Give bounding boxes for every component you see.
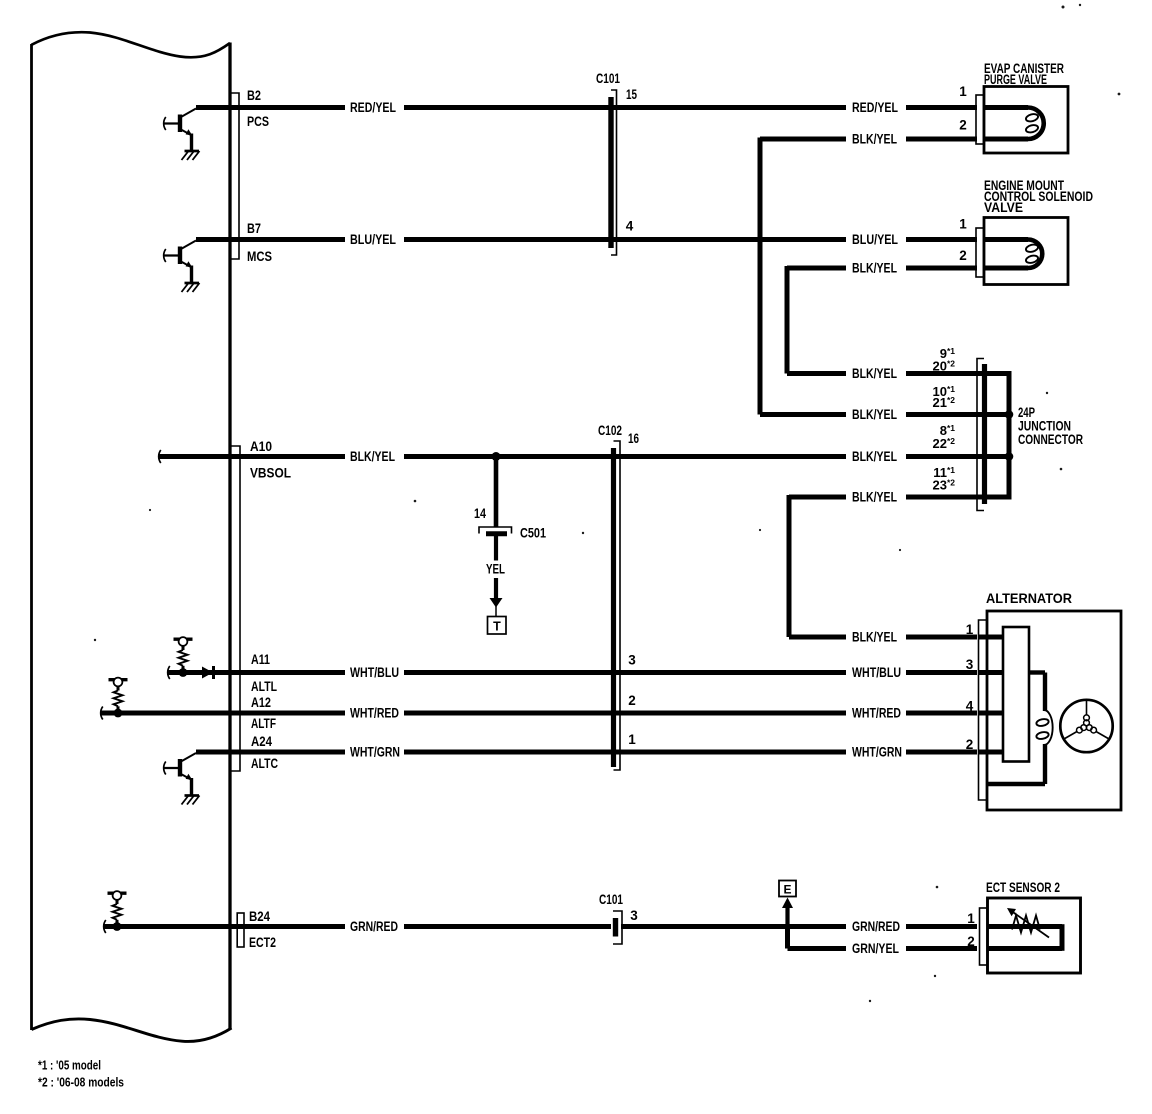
svg-text:2: 2: [966, 737, 974, 752]
svg-text:BLU/YEL: BLU/YEL: [852, 232, 898, 247]
svg-text:A11: A11: [251, 652, 270, 667]
svg-text:ALTF: ALTF: [251, 716, 276, 731]
svg-text:C101: C101: [596, 71, 620, 86]
svg-text:2: 2: [959, 248, 967, 263]
svg-text:GRN/RED: GRN/RED: [852, 919, 900, 934]
svg-text:BLU/YEL: BLU/YEL: [350, 232, 396, 247]
svg-text:16: 16: [628, 431, 639, 446]
svg-text:PCS: PCS: [247, 114, 269, 129]
svg-text:WHT/RED: WHT/RED: [852, 706, 901, 721]
svg-text:BLK/YEL: BLK/YEL: [852, 630, 897, 645]
svg-text:PURGE VALVE: PURGE VALVE: [984, 72, 1047, 87]
svg-text:E: E: [783, 883, 791, 897]
svg-text:2: 2: [628, 693, 636, 708]
svg-text:BLK/YEL: BLK/YEL: [852, 449, 897, 464]
svg-text:1: 1: [959, 84, 967, 99]
svg-text:14: 14: [474, 506, 486, 521]
svg-text:3: 3: [630, 908, 638, 923]
svg-text:WHT/BLU: WHT/BLU: [350, 665, 399, 680]
svg-text:WHT/GRN: WHT/GRN: [350, 745, 400, 760]
svg-text:MCS: MCS: [247, 249, 272, 264]
svg-text:BLK/YEL: BLK/YEL: [852, 132, 897, 147]
svg-text:1: 1: [966, 622, 974, 637]
svg-text:*2 : '06-08 models: *2 : '06-08 models: [38, 1076, 124, 1090]
svg-text:A10: A10: [250, 439, 272, 454]
svg-text:B24: B24: [249, 909, 270, 924]
svg-text:ECT2: ECT2: [249, 935, 276, 950]
svg-text:BLK/YEL: BLK/YEL: [852, 407, 897, 422]
svg-text:*1 : '05 model: *1 : '05 model: [38, 1059, 101, 1073]
svg-text:1: 1: [959, 217, 967, 232]
svg-text:ALTERNATOR: ALTERNATOR: [986, 591, 1072, 606]
svg-text:T: T: [493, 620, 501, 634]
svg-text:GRN/YEL: GRN/YEL: [852, 941, 899, 956]
svg-text:GRN/RED: GRN/RED: [350, 919, 398, 934]
svg-text:2: 2: [959, 118, 967, 133]
svg-text:15: 15: [626, 87, 637, 102]
svg-text:BLK/YEL: BLK/YEL: [852, 261, 897, 276]
svg-text:1: 1: [628, 732, 636, 747]
svg-text:BLK/YEL: BLK/YEL: [852, 490, 897, 505]
svg-text:4: 4: [626, 219, 634, 234]
svg-text:C501: C501: [520, 526, 546, 541]
svg-text:VBSOL: VBSOL: [250, 466, 291, 481]
svg-text:RED/YEL: RED/YEL: [852, 100, 898, 115]
svg-text:BLK/YEL: BLK/YEL: [852, 366, 897, 381]
svg-text:B2: B2: [247, 88, 261, 103]
svg-text:A24: A24: [251, 734, 272, 749]
svg-text:WHT/RED: WHT/RED: [350, 706, 399, 721]
svg-text:ALTL: ALTL: [251, 679, 277, 694]
svg-text:B7: B7: [247, 221, 261, 236]
svg-text:3: 3: [966, 657, 974, 672]
svg-text:RED/YEL: RED/YEL: [350, 100, 396, 115]
svg-text:VALVE: VALVE: [984, 200, 1023, 215]
svg-text:4: 4: [966, 699, 974, 714]
svg-text:2: 2: [967, 934, 975, 949]
svg-text:A12: A12: [251, 695, 271, 710]
svg-text:3: 3: [628, 653, 636, 668]
svg-text:1: 1: [967, 911, 975, 926]
svg-text:WHT/GRN: WHT/GRN: [852, 745, 902, 760]
svg-text:ALTC: ALTC: [251, 756, 278, 771]
svg-text:WHT/BLU: WHT/BLU: [852, 665, 901, 680]
svg-text:C102: C102: [598, 423, 622, 438]
svg-text:BLK/YEL: BLK/YEL: [350, 449, 395, 464]
svg-text:C101: C101: [599, 892, 623, 907]
svg-text:CONNECTOR: CONNECTOR: [1018, 432, 1083, 447]
svg-text:YEL: YEL: [486, 562, 505, 577]
svg-text:ECT SENSOR 2: ECT SENSOR 2: [986, 880, 1060, 895]
